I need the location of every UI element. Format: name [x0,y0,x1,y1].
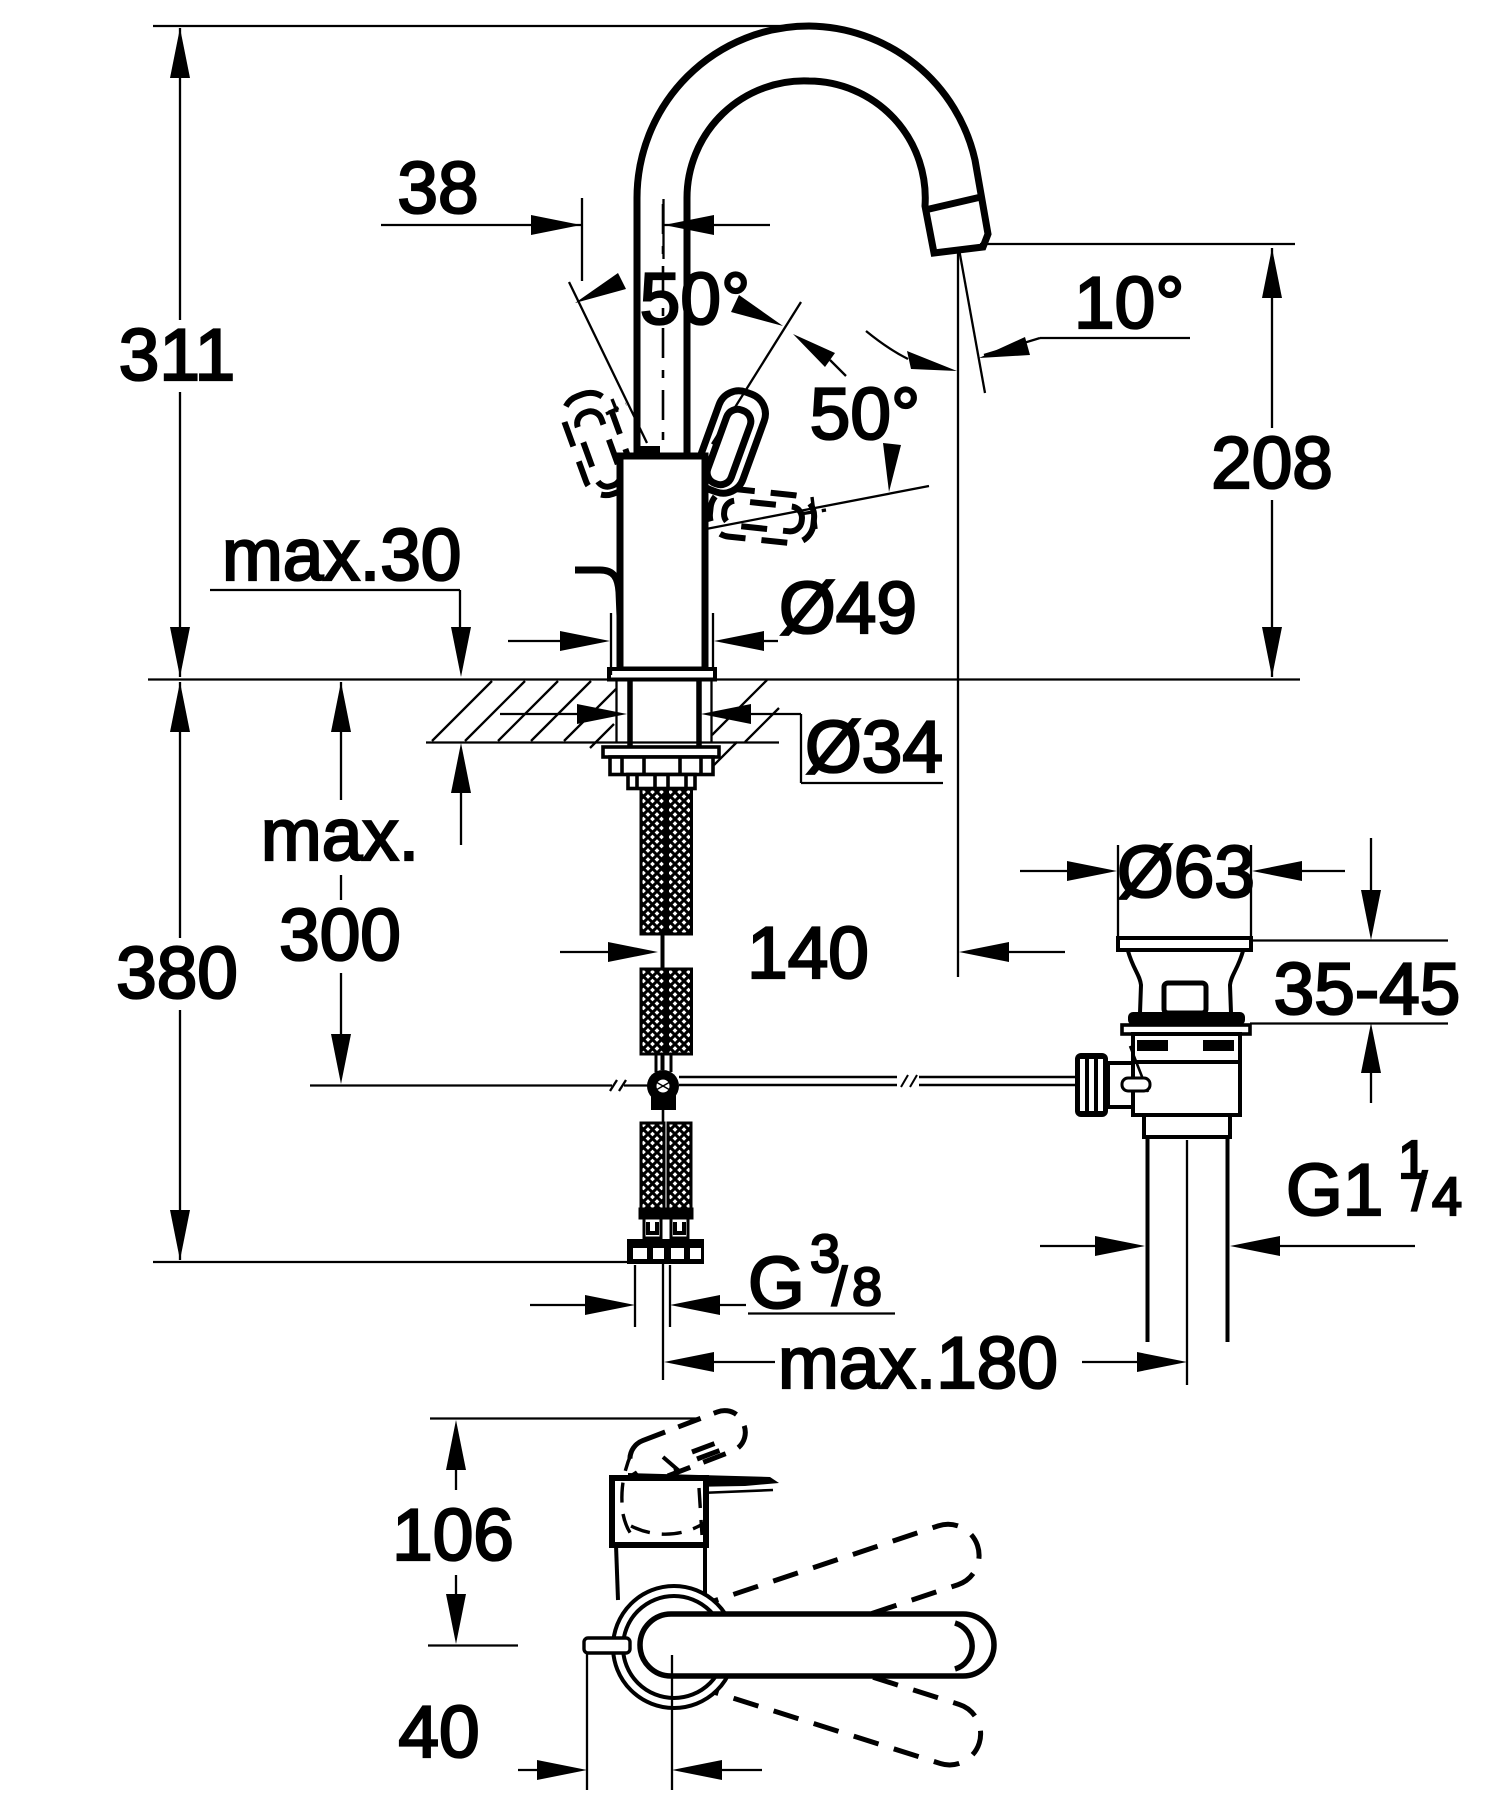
dim G 3/8 [530,1265,895,1327]
dim O34 [500,704,943,783]
top view body dashed details [622,1452,706,1541]
dim 10deg leader [979,337,1190,358]
drain tailpipe centerline [1186,1140,1188,1342]
svg-text:max.: max. [261,795,419,876]
svg-text:8: 8 [852,1257,882,1317]
body top clamp tab [638,446,660,456]
svg-text:40: 40 [398,1692,479,1773]
dim 50deg first angle lines [569,273,801,444]
flex hose braided section A [641,789,692,934]
flex hose braided section B [641,969,692,1054]
spout riser centerline [662,204,665,452]
dim 311 vertical line [170,28,190,677]
hose center line below node [662,1110,665,1125]
svg-text:140: 140 [747,913,869,994]
counter underside line [426,741,779,743]
dim 40 [518,1652,762,1790]
flex hose braided section C [641,1123,691,1209]
svg-text:/: / [832,1257,847,1317]
drain funnel neck [1128,951,1141,1013]
dim max.300 vertical [310,682,650,1091]
counter hole edges [617,680,712,742]
top view dashed lever (upper position) [664,1516,987,1676]
dim 311 top extension line [153,25,803,27]
dim O63 [1020,845,1345,938]
top view escutcheon circles [613,1586,735,1708]
top view spout solid (edge-on, pointing right) [628,1473,779,1488]
spout tip vertical reference line [957,248,959,977]
drain boss square [1164,983,1206,1013]
handle lever dashed (lowered-right position) [708,487,826,546]
drain gasket [1128,1012,1245,1025]
drain flange [1118,938,1251,950]
counter top line [148,678,1300,680]
svg-text:106: 106 [392,1495,514,1576]
dim G1 1/4 text [1286,1130,1462,1231]
counter hatching [432,680,779,765]
pull rod clamp knob [1075,1046,1150,1117]
svg-text:35-45: 35-45 [1274,949,1461,1030]
hose end crimp collars [640,1209,692,1238]
dim O49 [508,613,778,675]
top view dashed spout (swivelled) [624,1405,751,1487]
dim 208 extension + vertical [980,244,1295,677]
svg-text:/: / [1412,1162,1427,1222]
drain tailpipe collar [1144,1115,1230,1137]
mounting shank through counter [630,680,699,747]
hose pull rod (vertical, between hoses) [661,789,665,1070]
svg-text:G1: G1 [1286,1150,1383,1231]
pull-rod knob [575,570,620,616]
top view dashed lever (lower position) [665,1617,989,1772]
svg-text:50°: 50° [640,259,750,340]
svg-text:300: 300 [279,895,401,976]
shank washer [603,747,719,757]
svg-text:max.180: max.180 [778,1323,1058,1404]
top view lever solid [640,1614,994,1676]
faucet centerline below fittings [662,1264,664,1380]
hose end G3/8 fittings [627,1239,704,1264]
drain upper body with vent slots [1133,1034,1240,1062]
dim G1 1/4 [1040,1236,1415,1256]
base plate [609,669,715,680]
dim 380 vertical [153,682,630,1262]
handle lever dashed (raised-left position) [558,387,639,501]
drain tailpipe [1148,1137,1228,1342]
svg-text:38: 38 [397,148,478,229]
top view pull rod stub [584,1638,630,1653]
dim max.30 [210,590,471,845]
drain lower body [1133,1062,1240,1115]
svg-text:Ø34: Ø34 [805,707,943,788]
handle lever solid (raised) [691,385,772,499]
dim 35-45 [1250,838,1448,1103]
hose walls to node [656,1054,671,1072]
svg-text:50°: 50° [810,374,920,455]
drain washer flange [1122,1025,1250,1034]
dim 106 [428,1419,699,1646]
svg-text:Ø49: Ø49 [779,568,917,649]
faucet body [620,456,705,670]
top view neck [612,1545,706,1600]
horizontal pull rod to drain [679,1075,1075,1087]
top view body square [612,1478,706,1545]
svg-text:311: 311 [119,315,235,396]
svg-text:G: G [748,1243,805,1324]
svg-text:max.30: max.30 [222,515,461,596]
pull-rod junction node [647,1070,679,1110]
svg-text:4: 4 [1432,1167,1462,1227]
spout tube [637,26,988,458]
dim max.180 [664,1352,1187,1372]
dim 38 line [381,198,770,281]
dim 140 [560,942,1065,962]
svg-text:208: 208 [1211,423,1333,504]
mounting nut [610,757,713,789]
spout 10 degree slanted line [959,249,985,393]
svg-text:10°: 10° [1074,263,1184,344]
svg-text:380: 380 [116,933,238,1014]
spout aerator band [925,197,981,210]
dim G 3/8 text [748,1224,882,1324]
svg-text:Ø63: Ø63 [1117,832,1255,913]
dim 50deg second angle [706,331,957,529]
